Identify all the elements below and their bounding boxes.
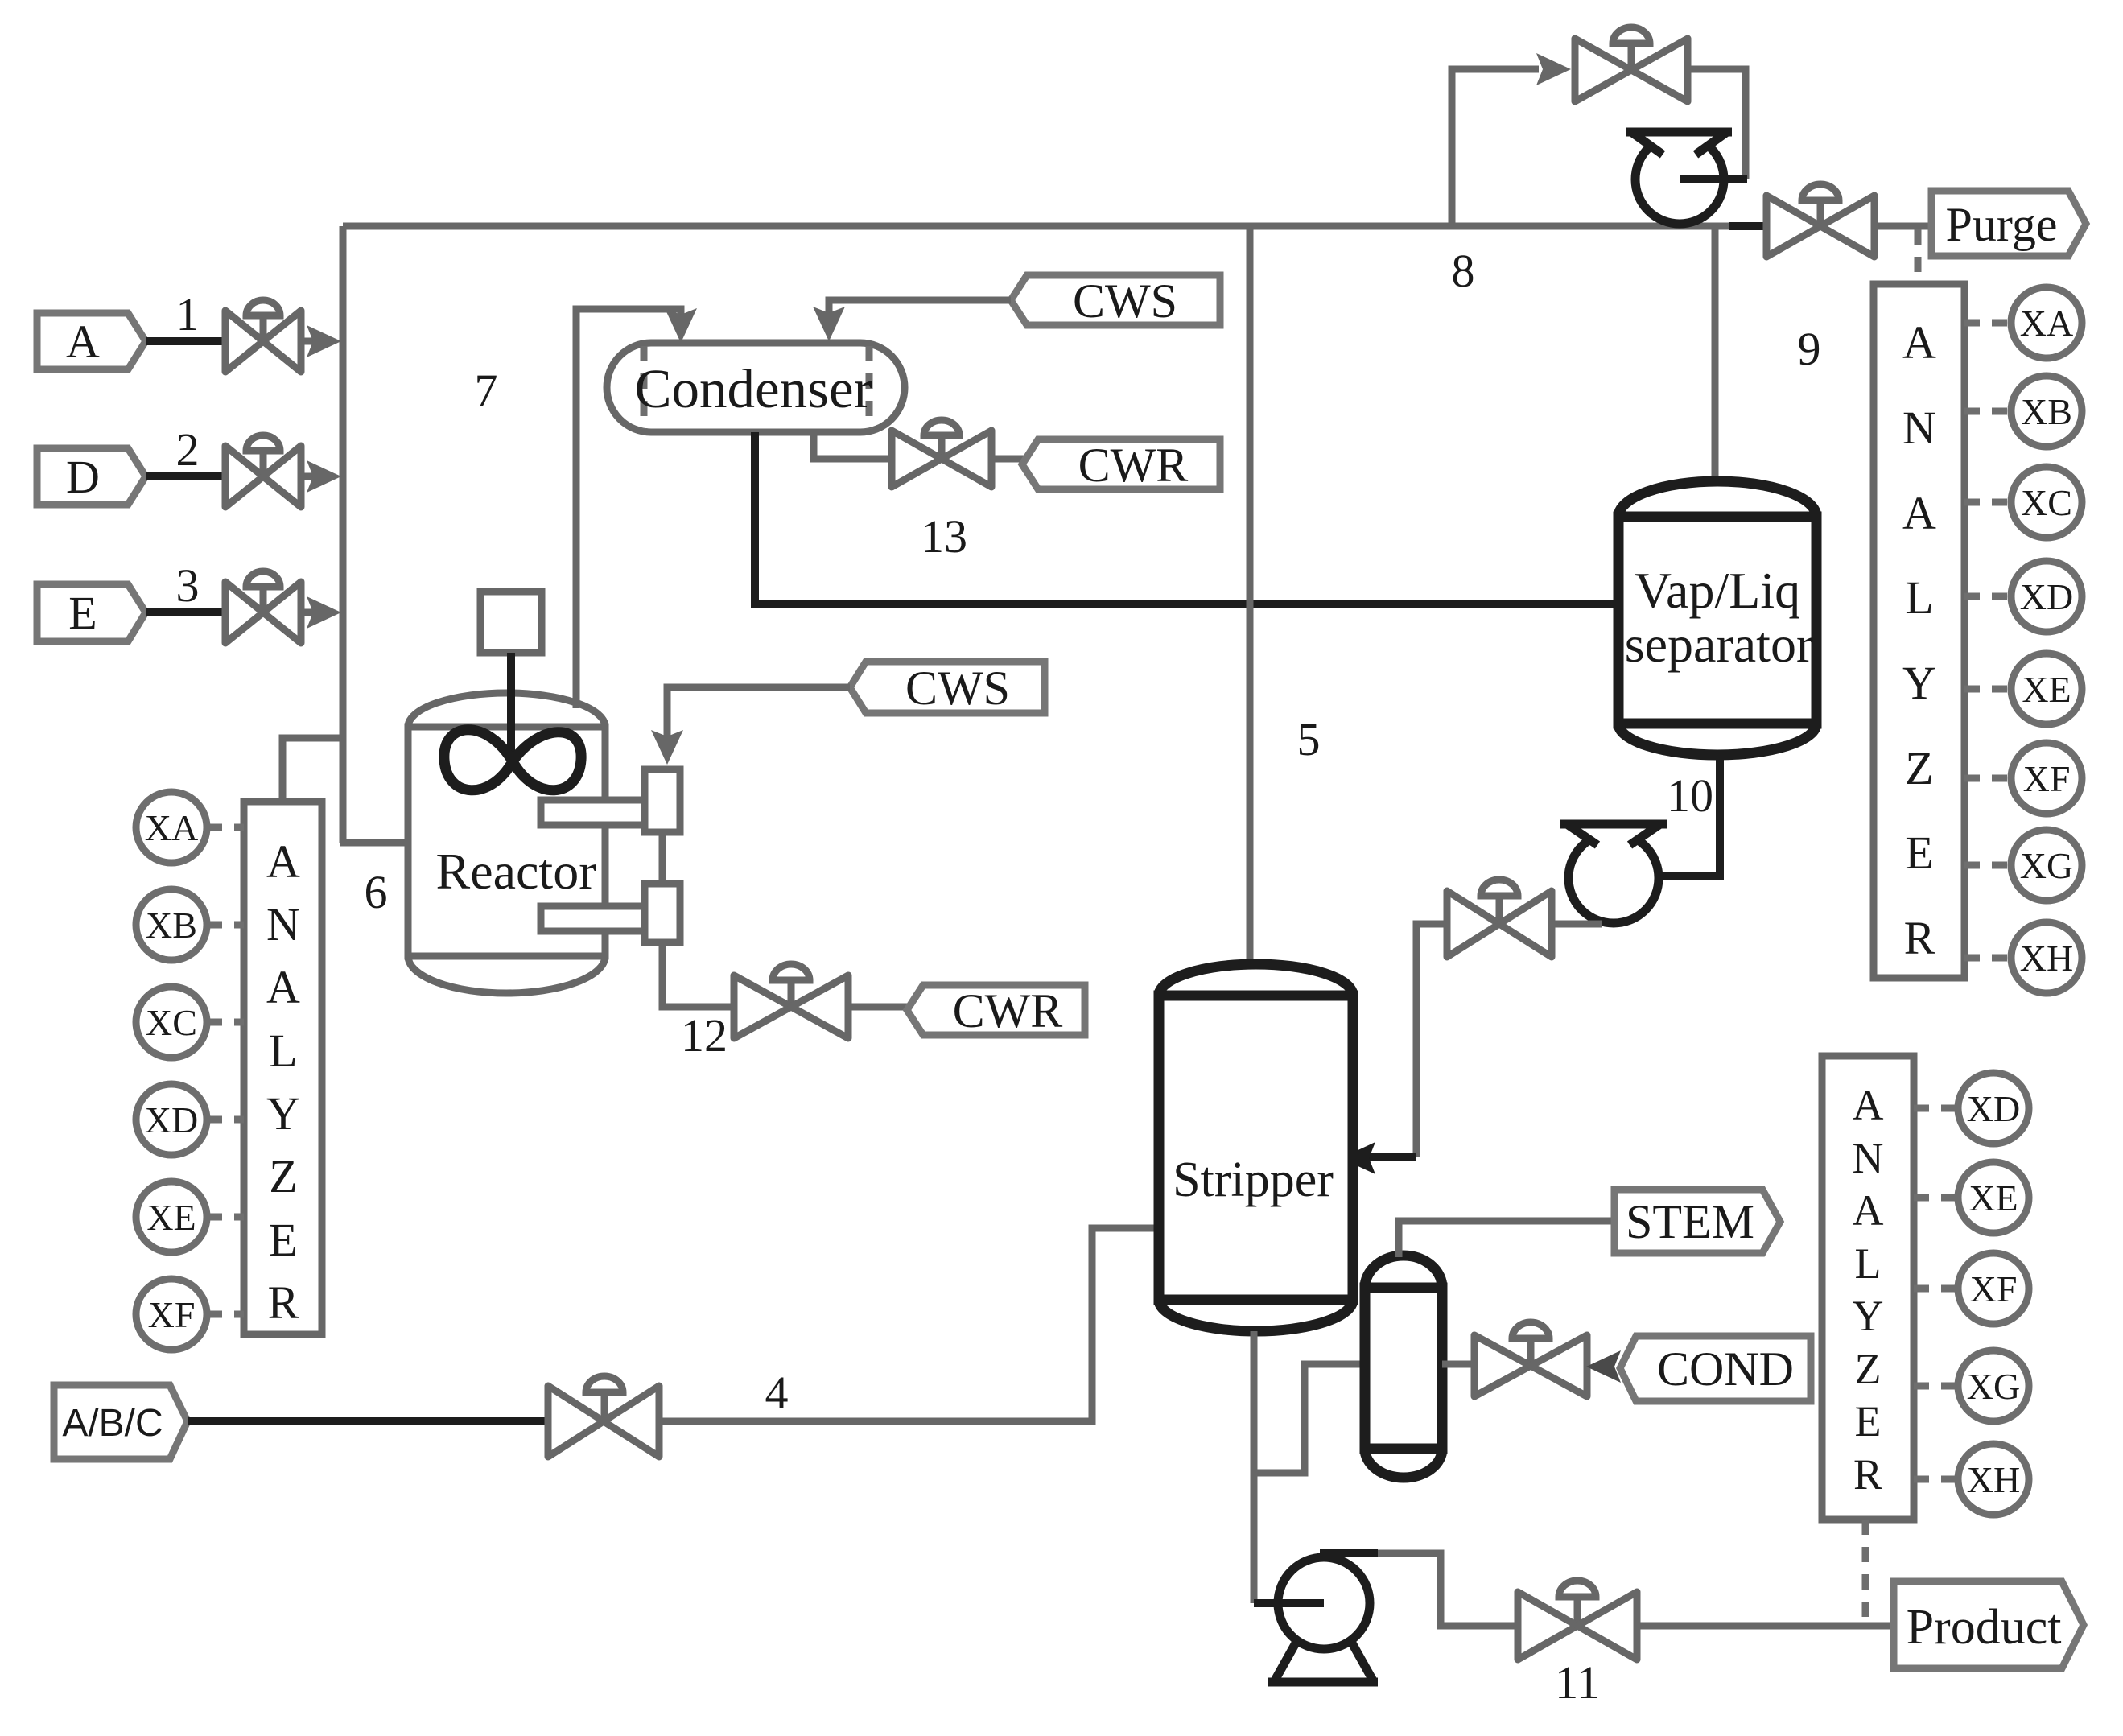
- svg-text:XD: XD: [2020, 576, 2073, 617]
- wire: pump to underflow valve: [1552, 921, 1602, 928]
- svg-text:E: E: [68, 587, 97, 639]
- purge valve: [1766, 184, 1874, 257]
- wire: feed header to reactor: [340, 839, 412, 847]
- svg-text:XF: XF: [2023, 758, 2071, 799]
- svg-text:Condenser: Condenser: [634, 358, 872, 419]
- wire: dashed analyzer to XC: [1964, 499, 2011, 506]
- wire: E to valve 3: [146, 608, 228, 616]
- svg-text:CWS: CWS: [905, 662, 1010, 715]
- svg-text:4: 4: [765, 1367, 789, 1419]
- wire: dashed XF to analyzer: [207, 1311, 244, 1318]
- wire: feed header vertical: [340, 226, 347, 843]
- svg-text:Z: Z: [1855, 1345, 1882, 1393]
- valve 13: [892, 420, 991, 487]
- svg-text:XA: XA: [2020, 303, 2073, 344]
- cooling coil header lower: [645, 884, 680, 942]
- sample point XH (bottom): [1958, 1444, 2029, 1515]
- svg-text:L: L: [1905, 571, 1933, 624]
- cooling coil header upper: [645, 769, 680, 832]
- wire: stream 5 riser to stripper: [1247, 226, 1254, 970]
- wire: dashed analyzer to XE: [1964, 686, 2011, 693]
- analyzer (bottom right): [1822, 1056, 1914, 1520]
- wire: dashed XD to analyzer: [207, 1116, 244, 1124]
- svg-text:E: E: [269, 1214, 297, 1266]
- svg-text:Z: Z: [1905, 742, 1933, 794]
- sample point XG (bottom): [1958, 1350, 2029, 1421]
- feed label A/B/C: [54, 1385, 188, 1459]
- svg-text:XD: XD: [1967, 1088, 2020, 1129]
- svg-text:XF: XF: [148, 1294, 196, 1335]
- wire: CWS to condenser: [829, 300, 1011, 320]
- wire: valve 2 to feed header: [301, 473, 315, 480]
- wire: valve 1 to feed header: [301, 338, 315, 345]
- agitator shaft: [507, 653, 515, 762]
- cooling coil stub upper: [541, 800, 645, 825]
- svg-text:5: 5: [1297, 713, 1321, 765]
- wire: dashed analyzer to XA: [1964, 320, 2011, 327]
- sample point XE (right): [2011, 654, 2082, 724]
- svg-text:separator: separator: [1625, 616, 1814, 673]
- sample point XB (left): [136, 889, 207, 960]
- svg-text:XG: XG: [2020, 845, 2073, 886]
- sample point XD (left): [136, 1084, 207, 1155]
- stripper vessel: [1159, 964, 1353, 1331]
- sample point XF (bottom): [1958, 1253, 2029, 1324]
- wire: reboiler to cond valve: [1442, 1361, 1477, 1368]
- svg-text:XE: XE: [2022, 669, 2071, 710]
- svg-text:A: A: [1902, 487, 1936, 539]
- svg-text:11: 11: [1555, 1656, 1600, 1709]
- svg-text:N: N: [1853, 1134, 1884, 1182]
- svg-text:A/B/C: A/B/C: [62, 1402, 163, 1445]
- wire: dashed analyzer2 to product line: [1862, 1520, 1869, 1623]
- wire: D to valve 2: [146, 472, 228, 480]
- sample point XA (right): [2011, 287, 2082, 358]
- wire: condenser to valve 13: [814, 432, 893, 459]
- svg-text:XC: XC: [2021, 482, 2072, 523]
- svg-text:3: 3: [176, 559, 200, 612]
- svg-text:D: D: [66, 451, 100, 503]
- wire: dashed analyzer2 to XE: [1914, 1194, 1958, 1202]
- svg-text:A: A: [266, 835, 300, 888]
- feed label E: [37, 584, 146, 641]
- svg-text:XC: XC: [146, 1002, 197, 1043]
- svg-text:Vap/Liq: Vap/Liq: [1635, 562, 1800, 619]
- CWS label (condenser): [1011, 274, 1220, 328]
- wire: dashed XB to analyzer: [207, 922, 244, 929]
- wire: stub to purge valve: [1729, 222, 1769, 230]
- svg-text:Product: Product: [1907, 1600, 2062, 1655]
- wire: analyzer tap: [282, 738, 343, 805]
- CWR label (reactor): [907, 984, 1085, 1037]
- valve 11: [1518, 1581, 1637, 1660]
- wire: dashed analyzer2 to XD: [1914, 1105, 1958, 1112]
- CWR label (condenser): [1022, 439, 1220, 492]
- condenser: [607, 343, 905, 432]
- wire: recycle valve to compressor: [1688, 69, 1746, 179]
- svg-text:Y: Y: [266, 1087, 300, 1140]
- svg-text:2: 2: [176, 423, 200, 476]
- wire: valve 12 to CWR: [848, 1004, 909, 1011]
- wire: recycle loop: [1452, 69, 1539, 226]
- feed label D: [37, 448, 146, 505]
- wire: pump discharge to valve 11: [1320, 1549, 1378, 1557]
- wire: valve 13 to CWR: [991, 456, 1024, 463]
- svg-text:L: L: [269, 1025, 297, 1077]
- wire: compressor discharge: [1678, 175, 1747, 183]
- wire: stripper bottoms: [1251, 1331, 1258, 1603]
- svg-text:CWR: CWR: [953, 984, 1063, 1037]
- svg-text:Y: Y: [1902, 657, 1936, 709]
- wire: purge valve to Purge: [1874, 223, 1933, 230]
- wire: dashed analyzer to XD: [1964, 593, 2011, 600]
- sample point XD (bottom): [1958, 1073, 2029, 1144]
- sample point XG (right): [2011, 830, 2082, 901]
- recycle valve: [1575, 27, 1688, 101]
- reboiler vessel: [1365, 1256, 1442, 1478]
- Product label: [1894, 1581, 2084, 1668]
- wire: stripper bottoms to reboiler: [1254, 1364, 1368, 1473]
- svg-text:XF: XF: [1970, 1268, 2018, 1309]
- Purge label: [1931, 191, 2086, 256]
- svg-text:Y: Y: [1853, 1292, 1884, 1340]
- svg-text:COND: COND: [1657, 1342, 1794, 1396]
- svg-text:XE: XE: [1968, 1177, 2018, 1218]
- wire: dashed XA to analyzer: [207, 824, 244, 831]
- svg-text:N: N: [266, 898, 300, 950]
- wire: coil connector: [659, 832, 666, 884]
- svg-text:XA: XA: [145, 807, 198, 848]
- valve 2: [225, 435, 301, 507]
- svg-text:N: N: [1902, 402, 1936, 454]
- svg-text:XE: XE: [146, 1197, 196, 1238]
- wire: dashed analyzer2 to XG: [1914, 1383, 1958, 1390]
- separator underflow valve: [1447, 880, 1552, 957]
- wire: reboiler to STEM: [1399, 1221, 1616, 1257]
- CWS label (reactor): [850, 662, 1045, 715]
- svg-text:13: 13: [921, 510, 967, 563]
- svg-text:R: R: [1853, 1450, 1882, 1499]
- sample point XF (right): [2011, 743, 2082, 814]
- cooling coil stub lower: [541, 906, 645, 931]
- valve 1: [225, 300, 301, 372]
- svg-text:Z: Z: [269, 1150, 297, 1202]
- stripper bottoms pump: [1254, 1557, 1378, 1682]
- sample point XE (bottom): [1958, 1162, 2029, 1233]
- svg-text:7: 7: [475, 365, 498, 417]
- svg-text:XG: XG: [1967, 1366, 2020, 1407]
- svg-text:L: L: [1855, 1239, 1882, 1288]
- wire: COND to valve arrow: [1586, 1350, 1621, 1383]
- agitator impeller: [444, 730, 581, 790]
- svg-text:R: R: [1904, 912, 1935, 964]
- svg-text:A: A: [1902, 316, 1936, 369]
- wire: dashed analyzer2 to XH: [1914, 1476, 1958, 1483]
- valve 4: [548, 1376, 659, 1457]
- wire: dashed analyzer to XF: [1964, 775, 2011, 782]
- sample point XD (right): [2011, 561, 2082, 632]
- svg-text:XB: XB: [146, 905, 197, 946]
- wire: valve 3 to feed header: [301, 609, 315, 616]
- svg-text:CWS: CWS: [1073, 274, 1177, 328]
- wire: underflow valve to stripper: [1416, 924, 1447, 1157]
- wire: A to valve 1: [146, 337, 228, 345]
- COND label: [1620, 1336, 1811, 1401]
- svg-text:Purge: Purge: [1946, 198, 2058, 251]
- svg-text:A: A: [1853, 1081, 1884, 1129]
- valve 3: [225, 571, 301, 643]
- svg-text:9: 9: [1798, 323, 1821, 375]
- wire: dashed analyzer to XB: [1964, 408, 2011, 415]
- svg-text:CWR: CWR: [1078, 439, 1189, 492]
- feed label A: [37, 313, 146, 369]
- sample point XH (right): [2011, 922, 2082, 993]
- wire: dashed purge to analyzer: [1915, 229, 1922, 284]
- wire: reactor overhead to condenser: [576, 309, 681, 708]
- svg-text:E: E: [1855, 1397, 1882, 1445]
- svg-text:10: 10: [1667, 769, 1713, 822]
- wire: dashed analyzer to XH: [1964, 955, 2011, 962]
- wire: dashed analyzer2 to XF: [1914, 1285, 1958, 1293]
- wire: valve 11 to Product: [1637, 1623, 1895, 1630]
- wire: dashed XE to analyzer: [207, 1214, 244, 1221]
- sample point XE (left): [136, 1181, 207, 1252]
- wire: coil to valve 12: [662, 942, 736, 1007]
- analyzer (top right): [1874, 284, 1964, 978]
- svg-text:E: E: [1905, 827, 1933, 879]
- wire: separator underflow: [1618, 755, 1720, 876]
- svg-text:1: 1: [176, 288, 200, 340]
- svg-text:R: R: [268, 1276, 299, 1329]
- sample point XB (right): [2011, 376, 2082, 447]
- wire: recycle line to separator: [1712, 226, 1719, 491]
- svg-text:A: A: [66, 315, 100, 368]
- sample point XC (right): [2011, 467, 2082, 538]
- wire: A/B/C to valve 4: [188, 1417, 550, 1425]
- svg-text:Reactor: Reactor: [436, 843, 596, 900]
- reactor vessel: [408, 693, 605, 993]
- wire: CWS to reactor coil: [667, 687, 850, 742]
- sample point XA (left): [136, 792, 207, 863]
- condensate valve: [1474, 1322, 1587, 1396]
- svg-text:XH: XH: [2020, 938, 2073, 979]
- svg-text:STEM: STEM: [1626, 1195, 1754, 1248]
- STEM label: [1614, 1190, 1780, 1253]
- sample point XF (left): [136, 1279, 207, 1350]
- wire: condenser outlet to separator: [755, 432, 1618, 604]
- sample point XC (left): [136, 987, 207, 1058]
- separator pump: [1560, 819, 1667, 923]
- valve 12: [734, 964, 848, 1038]
- wire: valve 4 to stripper: [659, 1228, 1162, 1421]
- vap/liq separator: [1618, 481, 1816, 755]
- svg-text:Stripper: Stripper: [1173, 1153, 1334, 1207]
- svg-text:A: A: [266, 961, 300, 1013]
- svg-text:6: 6: [365, 866, 388, 918]
- analyzer (left): [244, 802, 322, 1334]
- wire: top recycle line: [343, 223, 1735, 230]
- svg-text:XB: XB: [2021, 391, 2072, 432]
- svg-text:8: 8: [1452, 245, 1475, 297]
- compressor: [1626, 126, 1732, 224]
- wire: dashed XC to analyzer: [207, 1019, 244, 1026]
- svg-text:A: A: [1853, 1186, 1884, 1235]
- wire: dashed analyzer to XG: [1964, 862, 2011, 869]
- svg-text:XH: XH: [1967, 1459, 2020, 1500]
- svg-text:12: 12: [681, 1009, 728, 1062]
- svg-text:XD: XD: [145, 1099, 198, 1140]
- agitator motor: [480, 592, 542, 653]
